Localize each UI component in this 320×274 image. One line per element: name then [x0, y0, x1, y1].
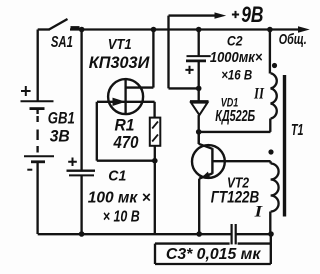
svg-text:ГТ122В: ГТ122В [211, 188, 260, 207]
svg-text:100 мк ×: 100 мк × [88, 190, 151, 207]
svg-text:1000мк×: 1000мк× [210, 49, 263, 66]
svg-text:9В: 9В [241, 2, 263, 27]
svg-text:× 10 В: × 10 В [103, 209, 140, 226]
svg-text:I: I [253, 203, 263, 220]
svg-text:II: II [253, 86, 265, 103]
svg-text:VT1: VT1 [108, 37, 132, 53]
svg-text:GB1: GB1 [48, 109, 75, 128]
svg-text:×16 В: ×16 В [221, 68, 252, 83]
svg-text:КП303И: КП303И [89, 53, 150, 72]
svg-text:Общ.: Общ. [279, 31, 307, 48]
svg-text:КД522Б: КД522Б [215, 108, 255, 125]
svg-text:С2: С2 [227, 34, 243, 49]
svg-text:Т1: Т1 [291, 122, 304, 139]
svg-text:470: 470 [113, 132, 139, 152]
svg-text:SA1: SA1 [51, 34, 73, 51]
svg-text:С3* 0,015 мк: С3* 0,015 мк [166, 246, 261, 263]
svg-text:3В: 3В [50, 127, 70, 146]
svg-text:С1: С1 [108, 168, 126, 185]
